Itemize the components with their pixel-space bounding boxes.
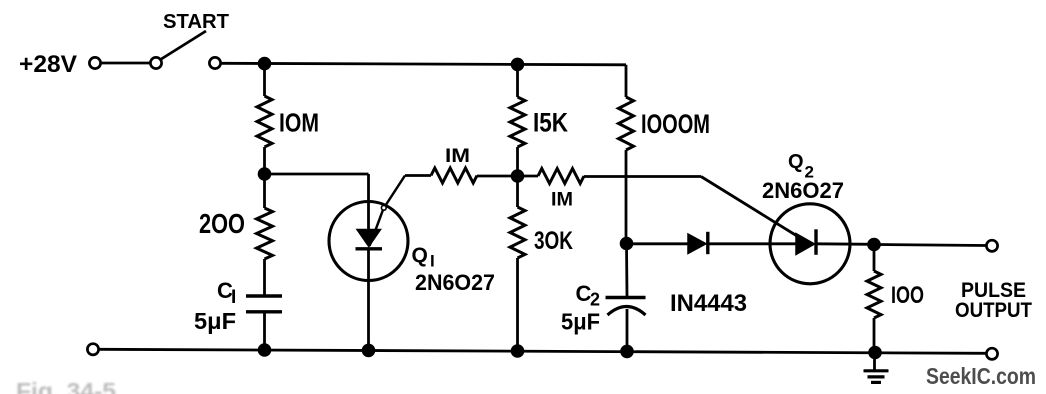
svg-text:I: I (231, 287, 236, 308)
svg-text:2: 2 (590, 290, 600, 310)
svg-text:OUTPUT: OUTPUT (955, 299, 1032, 322)
svg-text:2OO: 2OO (199, 208, 245, 239)
svg-text:IN4443: IN4443 (670, 290, 747, 317)
svg-text:I5K: I5K (533, 108, 568, 138)
svg-text:5μF: 5μF (561, 309, 600, 335)
svg-text:Q: Q (788, 151, 804, 173)
svg-text:IM: IM (445, 146, 470, 167)
svg-text:Fig. 34-5: Fig. 34-5 (16, 378, 116, 394)
svg-text:I: I (430, 252, 435, 271)
svg-text:2N6O27: 2N6O27 (762, 178, 844, 203)
svg-text:IOM: IOM (279, 108, 319, 138)
svg-text:+28V: +28V (19, 51, 77, 78)
svg-text:3OK: 3OK (534, 227, 573, 255)
svg-text:START: START (163, 11, 229, 33)
svg-text:SeekIC.com: SeekIC.com (926, 363, 1036, 389)
svg-text:Q: Q (412, 244, 428, 267)
svg-text:2N6O27: 2N6O27 (415, 270, 495, 295)
svg-text:IM: IM (551, 190, 573, 211)
svg-text:IOOOM: IOOOM (641, 109, 710, 139)
svg-text:5μF: 5μF (194, 308, 236, 334)
svg-text:IOO: IOO (891, 282, 924, 309)
